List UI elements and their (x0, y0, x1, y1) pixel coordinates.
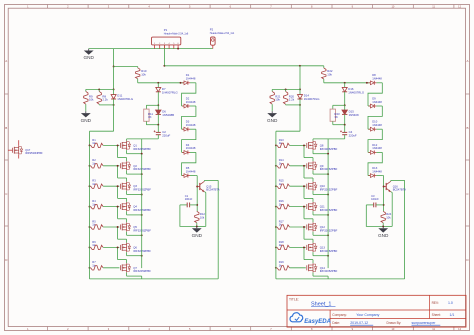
junction R8 top R (285, 88, 287, 90)
svg-text:1N4007RLG: 1N4007RLG (162, 90, 178, 94)
label P1 (164, 28, 189, 35)
wire stack top rail R (313, 139, 345, 154)
wire source chain bus R (327, 154, 329, 268)
svg-text:10k: 10k (141, 73, 146, 77)
wire C loop R (366, 205, 383, 227)
junction D7 top (157, 82, 159, 84)
ground GND5 L (192, 226, 203, 238)
svg-text:10k: 10k (275, 98, 280, 102)
transistor Q14 R (307, 263, 317, 272)
label R20 R (289, 94, 295, 101)
svg-text:3K: 3K (148, 115, 152, 119)
svg-text:2.2k: 2.2k (289, 98, 295, 102)
svg-text:IRF3205ZPBF: IRF3205ZPBF (320, 208, 338, 212)
junction top of cluster L (113, 88, 115, 90)
svg-text:1N4007RLG: 1N4007RLG (304, 97, 320, 101)
label D8 R (372, 73, 382, 80)
junction source bus L (141, 255, 143, 257)
svg-text:IRF3205ZPBF: IRF3205ZPBF (133, 249, 151, 253)
wire source stub L (127, 232, 142, 236)
svg-text:D4: D4 (186, 143, 190, 147)
junction gate link R (303, 206, 305, 208)
svg-text:D9: D9 (372, 96, 376, 100)
wire mid vertical upper R (299, 66, 301, 90)
junction gate link L (117, 165, 119, 167)
junction source bus L (141, 153, 143, 155)
label D6 L (162, 109, 174, 116)
label Q7 L (133, 266, 151, 273)
svg-text:B: B (466, 126, 468, 130)
label C4 R (349, 130, 357, 137)
label R3 L (92, 179, 96, 186)
wire ladder to base L (196, 176, 197, 183)
junction D-string mid1 L (157, 104, 159, 106)
label Q6 L (133, 245, 151, 252)
resistor R6 L (91, 245, 120, 249)
junction D-string mid2 L (157, 124, 159, 126)
svg-text:1N4448: 1N4448 (186, 169, 196, 173)
wire ladder link L (182, 106, 196, 129)
svg-text:IRF3205ZPBF: IRF3205ZPBF (133, 147, 151, 151)
wire gate-drain link R (304, 186, 313, 202)
diode D11 L (111, 89, 116, 105)
wire ladder link L (182, 83, 196, 106)
wire gate-drain link L (118, 247, 127, 263)
transistor Q5 L (120, 222, 130, 231)
junction node bus/R10 (113, 66, 115, 68)
svg-text:IRF3205ZPBF: IRF3205ZPBF (320, 167, 338, 171)
label Q4 L (133, 205, 151, 212)
wire emitter L (197, 192, 206, 227)
svg-text:220uF: 220uF (349, 133, 357, 137)
label D3 L (186, 120, 196, 127)
svg-text:Header-Male-2.54_1x6: Header-Male-2.54_1x6 (164, 32, 189, 35)
wire source stub L (127, 211, 142, 215)
wire cluster bottom rail L (99, 104, 113, 106)
junction source bus R (327, 173, 329, 175)
label Q12 R (320, 225, 338, 232)
wire mid vertical lower L (90, 105, 114, 145)
svg-text:D2: D2 (186, 96, 190, 100)
svg-text:sunpowersuper: sunpowersuper (412, 321, 437, 325)
transistor Q13 R (307, 243, 317, 252)
wire gate-drain link R (304, 145, 313, 161)
label R4 L (92, 199, 96, 206)
svg-text:Q8: Q8 (320, 143, 324, 147)
svg-text:Q1: Q1 (133, 143, 137, 147)
label Q15 L (206, 184, 219, 191)
junction R1 left L (89, 144, 91, 146)
ground GND2 L (81, 111, 92, 123)
wire source stub R (313, 171, 328, 175)
junction gate link L (117, 226, 119, 228)
svg-text:Q7: Q7 (133, 266, 137, 270)
label C3 R (371, 194, 379, 201)
label D5 L (186, 166, 196, 173)
svg-text:1.0: 1.0 (448, 301, 453, 305)
diode D8 R (368, 81, 382, 85)
diode D12 R (368, 150, 382, 154)
junction gate link R (303, 144, 305, 146)
resistor R4 L (91, 204, 120, 208)
label Q13 R (320, 245, 338, 252)
junction base L (196, 186, 198, 188)
svg-text:IRF3205ZPBF: IRF3205ZPBF (320, 188, 338, 192)
svg-text:10k: 10k (327, 73, 332, 77)
wire source stub R (313, 150, 328, 154)
svg-text:GND: GND (83, 55, 94, 60)
junction source bus R (327, 214, 329, 216)
label Q16 R (393, 184, 406, 191)
svg-text:10k: 10k (386, 216, 391, 220)
wire C loop L (180, 205, 197, 227)
svg-text:IRF3205ZPBF: IRF3205ZPBF (133, 188, 151, 192)
diode D10 R (368, 127, 382, 131)
wire base vertical R (383, 183, 385, 211)
transistor Q17 (8, 140, 23, 158)
label D12 R (372, 143, 382, 150)
junction gate link L (117, 246, 119, 248)
resistor R20 R (283, 89, 287, 105)
wire D-string row R (324, 82, 369, 84)
label C1 L (185, 194, 193, 201)
title block REV (432, 301, 453, 305)
label D15 R (349, 109, 359, 116)
resistor R1 L (91, 143, 120, 147)
junction gate link L (117, 206, 119, 208)
resistor R15 R (277, 184, 306, 188)
svg-text:1N4448: 1N4448 (186, 123, 196, 127)
junction D1 anode (180, 82, 182, 84)
wire last source R (313, 273, 328, 279)
transistor Q4 L (120, 202, 130, 211)
wire collector R (391, 179, 405, 182)
svg-text:P1: P1 (164, 28, 168, 32)
svg-text:Q13: Q13 (320, 245, 326, 249)
wire ladder link L (182, 129, 196, 152)
junction main bus right-half (299, 65, 301, 67)
title block frame (287, 295, 466, 327)
label R23 R (334, 112, 340, 119)
junction R4 left L (89, 206, 91, 208)
label R7 L (92, 260, 96, 267)
junction cluster bottom R (299, 104, 301, 106)
wire ladder to base R (382, 176, 383, 183)
junction D8 anode (366, 82, 368, 84)
junction R5 left L (89, 226, 91, 228)
transistor Q15 L (197, 181, 204, 192)
svg-text:GND: GND (192, 233, 203, 238)
junction source bus L (141, 234, 143, 236)
wire gate-drain link R (304, 227, 313, 243)
resistor R8 L (97, 89, 101, 105)
title block TITLE label (289, 297, 299, 301)
svg-text:10k: 10k (200, 216, 205, 220)
wire mid vertical lower R (276, 105, 300, 145)
resistor R21 R (270, 89, 274, 111)
svg-text:1N4448: 1N4448 (186, 100, 196, 104)
wire GND branch vertical (113, 49, 115, 67)
wire source stub L (127, 191, 142, 195)
capacitor C3 R (366, 203, 383, 208)
label C2 L (162, 130, 170, 137)
label Q14 R (320, 266, 338, 273)
wire source stub L (127, 252, 142, 256)
wire source stub R (313, 232, 328, 236)
svg-text:GND: GND (81, 118, 92, 123)
label D10 R (372, 120, 382, 127)
wire base vertical L (196, 183, 198, 211)
wire main bus (164, 65, 323, 67)
label D16 R (348, 87, 364, 94)
resistor R23 R (330, 105, 345, 124)
diode D7 L (156, 83, 161, 106)
resistor R13 R (277, 143, 306, 147)
label D2 L (186, 96, 196, 103)
wire gate-drain link R (304, 207, 313, 223)
svg-text:Q17: Q17 (25, 148, 31, 152)
wire source stub L (127, 171, 142, 175)
svg-text:IRF3205ZPBF: IRF3205ZPBF (133, 167, 151, 171)
label D1 L (186, 73, 196, 80)
label D13 R (372, 166, 382, 173)
wire gate bus L (89, 145, 91, 279)
svg-text:Q2: Q2 (133, 164, 137, 168)
svg-text:A: A (466, 59, 468, 63)
svg-text:TITLE:: TITLE: (289, 297, 299, 301)
capacitor C2 L (154, 125, 161, 139)
junction base R (383, 186, 385, 188)
diode D4 L (182, 150, 196, 154)
junction R7 left L (89, 267, 91, 269)
junction C at base L (196, 204, 198, 206)
diode D3 L (182, 127, 196, 131)
junction P1 pin3 to bus (163, 65, 165, 67)
transistor Q11 R (307, 202, 317, 211)
wire ladder link R (368, 129, 382, 152)
junction source bus L (141, 214, 143, 216)
svg-text:Q6: Q6 (133, 245, 137, 249)
wire gate-drain link L (118, 227, 127, 243)
svg-text:1N4448: 1N4448 (186, 146, 196, 150)
resistor R5 L (91, 225, 120, 229)
diode D13 R (368, 174, 382, 178)
resistor R19 R (277, 266, 306, 270)
svg-text:IRF3205ZPBF: IRF3205ZPBF (320, 147, 338, 151)
wire ladder link L (182, 152, 196, 175)
label D4 L (186, 143, 196, 150)
junction source bus R (327, 255, 329, 257)
label Q11 R (320, 205, 338, 212)
svg-text:Q14: Q14 (320, 266, 326, 270)
junction R16 left R (275, 206, 277, 208)
resistor R14 R (277, 164, 306, 168)
junction R15 left R (275, 185, 277, 187)
label Q5 L (133, 225, 151, 232)
svg-text:1N5408: 1N5408 (349, 113, 359, 117)
wire ladder link R (368, 152, 382, 175)
svg-text:1N4007RLG: 1N4007RLG (348, 90, 364, 94)
svg-text:IRF3205ZPBF: IRF3205ZPBF (320, 249, 338, 253)
ground GND1 (83, 49, 94, 61)
wire gate-drain link L (118, 145, 127, 161)
transistor Q2 L (120, 161, 130, 170)
junction source bus R (327, 194, 329, 196)
resistor R18 R (277, 245, 306, 249)
wire cluster top rail R (272, 88, 300, 90)
wire ladder link R (368, 83, 382, 106)
junction R18 left R (275, 246, 277, 248)
wire gate-drain link L (118, 186, 127, 202)
junction emitter node L (196, 225, 198, 227)
resistor R10 (114, 67, 140, 83)
junction source bus R (327, 153, 329, 155)
junction gate link R (303, 226, 305, 228)
resistor R16 R (277, 204, 306, 208)
diode D9 R (368, 104, 382, 108)
svg-text:1N4007RLG: 1N4007RLG (117, 97, 133, 101)
transistor Q12 R (307, 222, 317, 231)
wire ladder link R (368, 106, 382, 129)
wire stack top rail L (127, 139, 159, 154)
resistor R17 R (277, 225, 306, 229)
wire D-string row L (138, 82, 183, 84)
transistor Q7 L (120, 263, 130, 272)
wire source stub R (313, 252, 328, 256)
label R6 L (92, 240, 96, 247)
wire bottom rail L (90, 180, 219, 279)
label R13 R (279, 138, 284, 145)
junction R6 left L (89, 246, 91, 248)
label R22 (327, 69, 333, 76)
title block Date (332, 321, 373, 325)
svg-text:2019-07-12: 2019-07-12 (350, 321, 368, 325)
junction R2 left L (89, 165, 91, 167)
svg-text:1N4448: 1N4448 (372, 100, 382, 104)
svg-text:3K: 3K (334, 115, 338, 119)
junction R8 top L (98, 88, 100, 90)
diode D6 L (156, 105, 161, 124)
svg-text:Q9: Q9 (320, 164, 324, 168)
junction gate link R (303, 185, 305, 187)
junction gate link L (117, 185, 119, 187)
wire cluster top rail L (86, 88, 114, 90)
diode D15 R (342, 105, 347, 124)
wire cluster bottom rail R (286, 104, 300, 106)
connector P1 (152, 37, 181, 49)
ground GND3 R (267, 111, 278, 123)
resistor R2 L (91, 164, 120, 168)
svg-text:Your Company: Your Company (356, 313, 379, 317)
junction C at base R (383, 204, 385, 206)
border row ticks (5, 94, 470, 226)
wire gate-drain link R (304, 247, 313, 263)
label R24 R (386, 212, 391, 219)
label Q17 (25, 148, 43, 155)
label R21 R (275, 94, 281, 101)
label Q3 L (133, 184, 151, 191)
wire gate-drain link L (118, 207, 127, 223)
junction source bus R (327, 234, 329, 236)
label Q10 R (320, 184, 338, 191)
svg-text:IRF3205ZPBF: IRF3205ZPBF (320, 228, 338, 232)
resistor R11 L (144, 105, 159, 124)
resistor R24 R (381, 211, 385, 226)
junction gate link R (303, 165, 305, 167)
label R2 L (92, 158, 96, 165)
label R16 R (279, 199, 284, 206)
diode D16 R (342, 83, 347, 106)
svg-text:A: A (5, 59, 7, 63)
wire P1 pin3 drop (163, 45, 165, 66)
svg-text:EasyEDA: EasyEDA (304, 319, 331, 325)
svg-text:BC547BTA: BC547BTA (393, 188, 406, 192)
resistor R7 L (91, 266, 120, 270)
ground GND4 R (378, 226, 389, 238)
wire mid vertical upper L (113, 67, 115, 90)
diode D14 R (298, 89, 303, 105)
resistor R22 (322, 66, 326, 83)
junction P1 pin6 (177, 48, 179, 50)
label D7 L (162, 87, 178, 94)
diode D1 L (182, 81, 196, 85)
svg-text:Header-Male-2.54_1x1: Header-Male-2.54_1x1 (210, 32, 235, 35)
EasyEDA logo (290, 313, 331, 325)
junction D-string mid2 R (344, 124, 346, 126)
junction R13 left R (275, 144, 277, 146)
transistor Q3 L (120, 182, 130, 191)
label R10 (141, 69, 147, 76)
label R9 L (89, 94, 94, 101)
junction source bus L (141, 194, 143, 196)
svg-text:REV:: REV: (432, 301, 439, 305)
transistor Q1 L (120, 141, 130, 150)
resistor R3 L (91, 184, 120, 188)
svg-text:BC547BTA: BC547BTA (206, 188, 219, 192)
svg-text:Date:: Date: (332, 321, 340, 325)
svg-text:Drawn By:: Drawn By: (387, 321, 402, 325)
junction D16 top (344, 82, 346, 84)
wire gate bus R (275, 145, 277, 279)
wire source stub R (313, 191, 328, 195)
svg-text:1N4448: 1N4448 (372, 169, 382, 173)
label D11 L (117, 94, 133, 101)
junction R14 left R (275, 165, 277, 167)
label R5 L (92, 219, 96, 226)
wire collector L (204, 179, 218, 182)
capacitor C1 L (180, 203, 197, 208)
wire source stub L (127, 150, 142, 154)
capacitor C4 R (340, 125, 347, 139)
svg-text:1N4448: 1N4448 (372, 77, 382, 81)
transistor Q16 R (384, 181, 391, 192)
svg-text:IRF9530NPBF: IRF9530NPBF (25, 151, 43, 155)
title block Company (332, 313, 379, 317)
svg-text:1N4448: 1N4448 (372, 146, 382, 150)
resistor R9 L (84, 89, 88, 111)
resistor R12 L (195, 211, 199, 226)
title block Sheet (432, 313, 455, 317)
label Q8 R (320, 143, 338, 150)
svg-text:IRF3205ZPBF: IRF3205ZPBF (320, 269, 338, 273)
wire bottom rail R (276, 180, 405, 279)
svg-text:IRF3205ZPBF: IRF3205ZPBF (133, 228, 151, 232)
svg-text:GND: GND (378, 233, 389, 238)
svg-text:Sheet:: Sheet: (432, 313, 441, 317)
svg-text:10k: 10k (89, 98, 94, 102)
label R11 L (148, 112, 153, 119)
wire gate-drain link L (118, 166, 127, 182)
